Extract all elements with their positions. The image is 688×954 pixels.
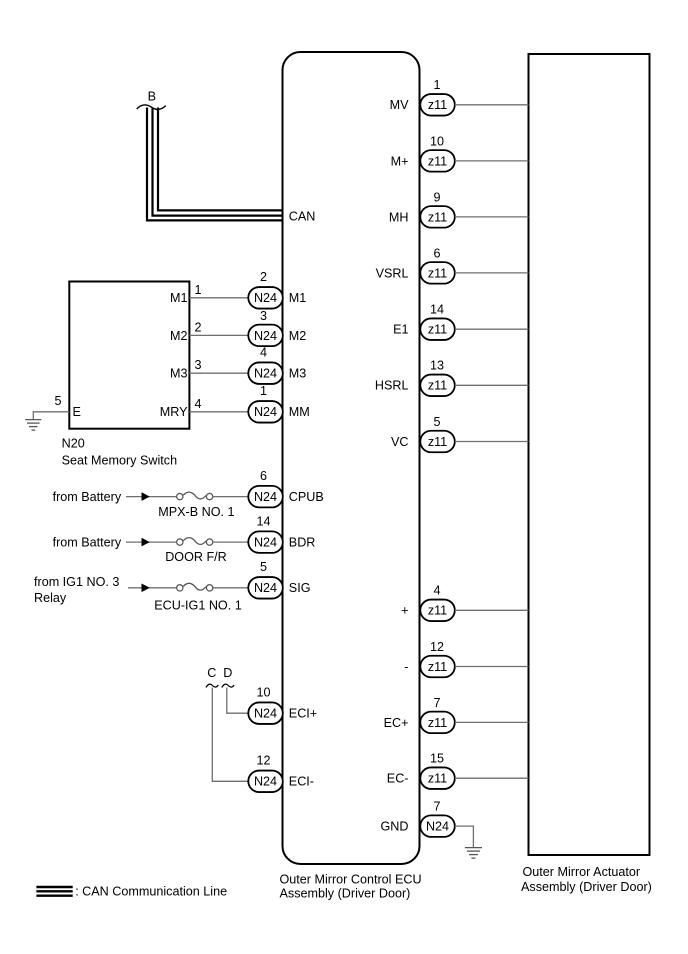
- svg-text:N24: N24: [254, 707, 277, 721]
- fuse DOOR F/R: [165, 538, 227, 565]
- svg-text:z11: z11: [428, 379, 447, 393]
- svg-text:Relay: Relay: [34, 591, 67, 605]
- svg-text:M1: M1: [170, 291, 188, 305]
- svg-text:z11: z11: [428, 435, 447, 449]
- svg-text:Outer Mirror Control ECU: Outer Mirror Control ECU: [280, 872, 422, 886]
- svg-text:Outer Mirror Actuator: Outer Mirror Actuator: [523, 865, 641, 879]
- wire from Battery (CPUB): [53, 490, 249, 504]
- svg-text:z11: z11: [428, 660, 447, 674]
- svg-text:N24: N24: [254, 329, 277, 343]
- connector N24 pin 2 (M1): [248, 270, 306, 308]
- svg-text:SIG: SIG: [289, 581, 311, 595]
- wire E1: [455, 328, 529, 330]
- svg-text:-: -: [404, 660, 408, 674]
- svg-text:EC+: EC+: [384, 716, 409, 730]
- svg-text:M2: M2: [289, 329, 307, 343]
- connector z11 pin 6 (VSRL): [376, 246, 455, 283]
- svg-text:10: 10: [256, 686, 270, 700]
- svg-text:C: C: [207, 666, 216, 680]
- svg-text:B: B: [148, 90, 156, 104]
- wire MRY: [189, 397, 248, 412]
- wire -: [455, 666, 529, 668]
- svg-text:N24: N24: [254, 775, 277, 789]
- svg-text:4: 4: [194, 397, 201, 411]
- svg-text:MV: MV: [390, 98, 409, 112]
- op-amp U1 : Outer Mirror Control ECU Assembly box: [280, 52, 422, 901]
- Outer Mirror Actuator Assembly box: [521, 54, 652, 894]
- wire VSRL: [455, 272, 529, 274]
- svg-text:N20: N20: [62, 437, 85, 451]
- svg-text:MM: MM: [289, 405, 310, 419]
- svg-text:CPUB: CPUB: [289, 490, 324, 504]
- svg-text:14: 14: [256, 515, 270, 529]
- connector z11 pin 14 (E1): [393, 303, 455, 340]
- svg-text:ECI-: ECI-: [289, 775, 314, 789]
- Seat Memory Switch N20 box: [62, 282, 190, 468]
- wire M+: [455, 160, 529, 162]
- svg-text:N24: N24: [254, 405, 277, 419]
- node C: [206, 666, 218, 688]
- svg-text:Assembly (Driver Door): Assembly (Driver Door): [280, 887, 411, 901]
- svg-text:7: 7: [433, 696, 440, 710]
- svg-text:VC: VC: [391, 435, 409, 449]
- connector N24 pin 7 (GND): [381, 800, 455, 837]
- svg-text:MH: MH: [389, 210, 409, 224]
- svg-text:z11: z11: [428, 772, 447, 786]
- wire from Battery (BDR): [53, 536, 249, 550]
- svg-text:N24: N24: [426, 820, 449, 834]
- wire EC+: [455, 721, 529, 723]
- svg-text:N24: N24: [254, 581, 277, 595]
- connector N24 pin 10 (ECI+): [248, 686, 317, 724]
- svg-text:E1: E1: [393, 323, 408, 337]
- wire HSRL: [455, 384, 529, 386]
- svg-text:N24: N24: [254, 536, 277, 550]
- svg-text:MRY: MRY: [160, 405, 188, 419]
- svg-text:BDR: BDR: [289, 536, 316, 550]
- connector N24 pin 14 (BDR): [248, 515, 315, 553]
- connector z11 pin 15 (EC-): [387, 752, 455, 789]
- svg-text:10: 10: [430, 134, 444, 148]
- wire M3: [189, 358, 248, 373]
- svg-text:5: 5: [433, 415, 440, 429]
- svg-text:z11: z11: [428, 266, 447, 280]
- node D: [222, 666, 234, 688]
- svg-text:: CAN Communication Line: : CAN Communication Line: [75, 885, 227, 899]
- node B (CAN branch): [137, 90, 166, 110]
- svg-text:5: 5: [54, 394, 61, 408]
- svg-text:Assembly (Driver Door): Assembly (Driver Door): [521, 880, 652, 894]
- svg-text:9: 9: [433, 190, 440, 204]
- svg-text:2: 2: [194, 320, 201, 334]
- svg-text:N24: N24: [254, 291, 277, 305]
- wire MH: [455, 216, 529, 218]
- svg-text:from Battery: from Battery: [53, 536, 122, 550]
- svg-text:3: 3: [260, 309, 267, 323]
- svg-text:1: 1: [433, 78, 440, 92]
- connector N24 pin 4 (M3): [248, 346, 306, 384]
- connector N24 pin 6 (CPUB): [248, 469, 323, 507]
- svg-text:N24: N24: [254, 367, 277, 381]
- svg-text:E: E: [73, 405, 81, 419]
- connector z11 pin 13 (HSRL): [375, 359, 455, 396]
- wire E to ground: [33, 394, 69, 420]
- svg-text:D: D: [223, 666, 232, 680]
- svg-text:1: 1: [194, 283, 201, 297]
- wire C to ECI-: [212, 688, 248, 782]
- CAN bus triple line: [147, 108, 282, 221]
- svg-text:+: +: [401, 604, 408, 618]
- svg-text:z11: z11: [428, 154, 447, 168]
- wire M2: [189, 320, 248, 335]
- svg-text:M1: M1: [289, 291, 307, 305]
- ground (seat memory switch): [25, 420, 41, 431]
- svg-text:from IG1 NO. 3: from IG1 NO. 3: [34, 575, 119, 589]
- svg-text:3: 3: [194, 358, 201, 372]
- svg-text:VSRL: VSRL: [376, 266, 409, 280]
- svg-text:EC-: EC-: [387, 772, 409, 786]
- svg-text:z11: z11: [428, 98, 447, 112]
- svg-text:2: 2: [260, 270, 267, 284]
- connector N24 pin 12 (ECI-): [248, 754, 314, 792]
- svg-text:6: 6: [260, 469, 267, 483]
- connector z11 pin 4 (+): [401, 584, 455, 621]
- svg-text:4: 4: [433, 584, 440, 598]
- connector z11 pin 1 (MV): [390, 78, 455, 115]
- svg-text:ECU-IG1 NO. 1: ECU-IG1 NO. 1: [154, 599, 241, 613]
- ground (GND): [465, 848, 482, 859]
- wire +: [455, 609, 529, 611]
- svg-text:z11: z11: [428, 716, 447, 730]
- svg-text:GND: GND: [381, 820, 409, 834]
- fuse ECU-IG1 NO. 1: [154, 583, 241, 612]
- wire GND to ground: [455, 826, 474, 848]
- svg-text:1: 1: [260, 384, 267, 398]
- svg-text:13: 13: [430, 359, 444, 373]
- svg-text:12: 12: [256, 754, 270, 768]
- svg-text:z11: z11: [428, 323, 447, 337]
- wire MV: [455, 104, 529, 106]
- fuse MPX-B NO. 1: [158, 492, 234, 519]
- connector z11 pin 7 (EC+): [384, 696, 455, 733]
- svg-text:4: 4: [260, 346, 267, 360]
- svg-text:15: 15: [430, 752, 444, 766]
- wire M1: [189, 283, 248, 298]
- svg-text:M+: M+: [391, 154, 409, 168]
- wire from IG1 NO. 3 Relay (SIG): [34, 575, 248, 605]
- svg-text:M2: M2: [170, 329, 188, 343]
- svg-text:5: 5: [260, 560, 267, 574]
- svg-text:z11: z11: [428, 210, 447, 224]
- svg-text:14: 14: [430, 303, 444, 317]
- wire VC: [455, 441, 529, 443]
- connector z11 pin 5 (VC): [391, 415, 455, 452]
- svg-text:N24: N24: [254, 490, 277, 504]
- svg-text:M3: M3: [170, 367, 188, 381]
- connector N24 pin 5 (SIG): [248, 560, 310, 598]
- svg-text:6: 6: [433, 246, 440, 260]
- svg-text:CAN: CAN: [289, 209, 316, 223]
- connector z11 pin 12 (-): [404, 640, 455, 677]
- svg-text:ECI+: ECI+: [289, 707, 317, 721]
- svg-text:z11: z11: [428, 604, 447, 618]
- wire D to ECI+: [227, 688, 249, 714]
- svg-text:Seat Memory Switch: Seat Memory Switch: [62, 453, 177, 467]
- wire EC-: [455, 777, 529, 779]
- legend: CAN Communication Line symbol: [36, 885, 227, 899]
- svg-text:HSRL: HSRL: [375, 379, 409, 393]
- svg-text:MPX-B NO. 1: MPX-B NO. 1: [158, 505, 234, 519]
- connector z11 pin 10 (M+): [391, 134, 455, 171]
- svg-text:M3: M3: [289, 367, 307, 381]
- svg-text:12: 12: [430, 640, 444, 654]
- connector N24 pin 3 (M2): [248, 309, 306, 346]
- connector z11 pin 9 (MH): [389, 190, 455, 227]
- svg-text:DOOR F/R: DOOR F/R: [165, 550, 227, 564]
- svg-text:7: 7: [433, 800, 440, 814]
- connector N24 pin 1 (MM): [248, 384, 309, 422]
- svg-text:from Battery: from Battery: [53, 490, 122, 504]
